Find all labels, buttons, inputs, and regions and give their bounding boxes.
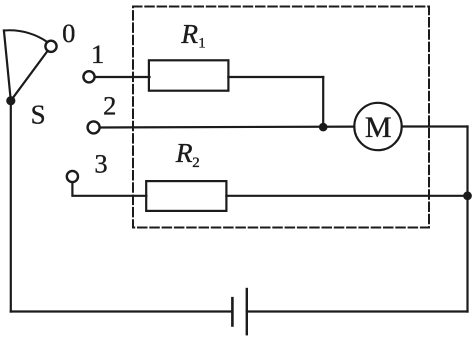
svg-text:S: S <box>31 99 46 129</box>
dashed box (controller enclosure) <box>133 7 429 228</box>
wire: right vertical <box>466 127 468 312</box>
svg-text:1: 1 <box>91 39 104 69</box>
svg-text:2: 2 <box>192 155 200 171</box>
resistor R1 box <box>149 60 229 90</box>
motor M circle <box>354 103 401 150</box>
terminal 2 circle <box>88 121 100 133</box>
wire: terminal 3 drop and lead to R2 <box>72 182 146 196</box>
wire: R1 branch riser down to junction <box>322 77 324 127</box>
terminal 1 circle <box>83 71 94 82</box>
svg-text:2: 2 <box>103 91 116 121</box>
svg-text:0: 0 <box>62 18 75 48</box>
wire: terminal 1 to R1 <box>95 76 150 78</box>
svg-text:M: M <box>365 111 392 144</box>
junction dot at motor branch <box>319 123 328 132</box>
svg-text:R: R <box>175 137 193 168</box>
svg-text:1: 1 <box>198 36 206 52</box>
switch pivot dot <box>6 96 15 105</box>
resistor R2 box <box>146 181 226 211</box>
wire: motor to right edge <box>402 125 468 127</box>
battery short plate (negative) <box>231 298 234 325</box>
svg-text:R: R <box>180 18 198 49</box>
wire: terminal 2 to motor (through junction) <box>100 125 354 128</box>
battery long plate (positive) <box>246 289 248 334</box>
wire: R2 to right edge <box>226 195 467 197</box>
wire: R1 right lead <box>228 76 323 78</box>
wire: left vertical from switch pivot to bottom-left corner <box>10 101 12 312</box>
contact 0 circle <box>45 41 56 52</box>
wire: bottom left (to battery) <box>11 310 233 312</box>
junction dot at right edge <box>463 191 472 200</box>
terminal 3 circle <box>67 171 78 182</box>
switch arm (pivot up to arc start) <box>4 31 11 101</box>
wire: bottom right (battery to right corner) <box>247 310 468 312</box>
switch travel arc <box>4 30 47 42</box>
svg-text:3: 3 <box>94 149 107 179</box>
switch blade (pivot to contact 0) <box>11 51 48 101</box>
